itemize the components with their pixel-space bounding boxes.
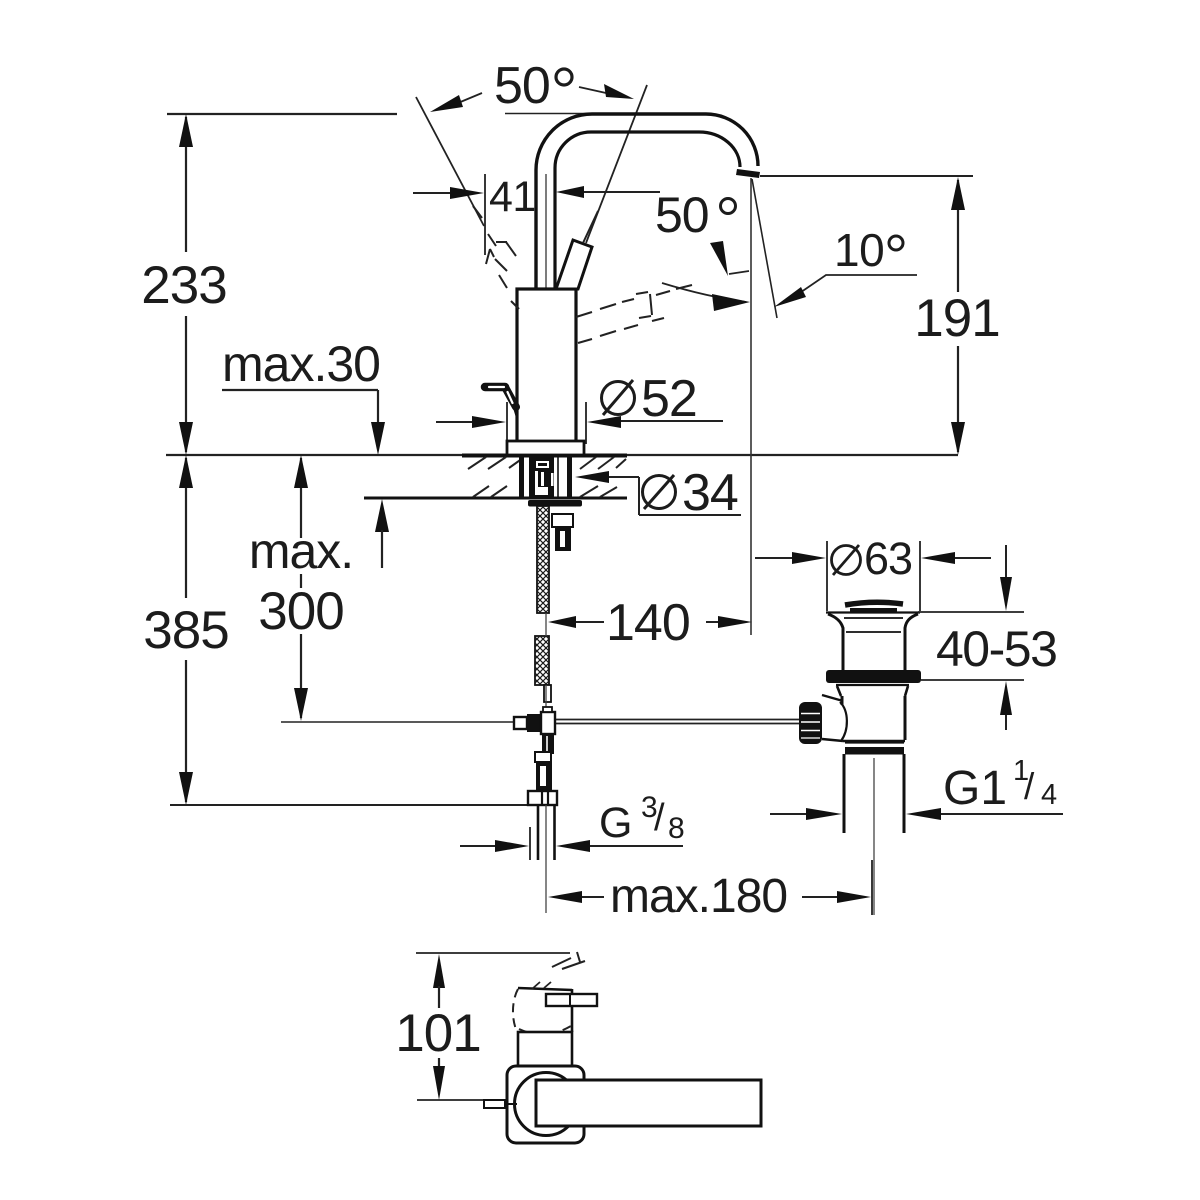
dimension 191 vertical line with arrows [951, 177, 965, 455]
svg-text:max.: max. [249, 523, 353, 579]
svg-text:G: G [599, 799, 632, 847]
side view lever bar [546, 994, 597, 1006]
pull rod knurled knob [799, 702, 822, 744]
pull rod horizontal [556, 720, 799, 724]
dimension G3/8 label [599, 791, 685, 847]
10 degree slanted line [752, 179, 777, 318]
dimension 41 label [489, 173, 536, 221]
svg-text:233: 233 [141, 256, 226, 315]
connection tail pipe [538, 805, 555, 913]
svg-text:52: 52 [641, 370, 697, 428]
mounting hole left wall [519, 456, 524, 498]
dimension diameter 63 label [832, 533, 913, 584]
threaded shank assembly [529, 456, 558, 499]
connection nut G3/8 [528, 791, 557, 805]
dimension G1 1/4 arrows [770, 808, 1063, 820]
dimension diameter 34 leader [575, 471, 741, 515]
side view top reference line [416, 952, 570, 954]
dimension 385 vertical line with arrows [179, 455, 193, 805]
shank washer under counter [528, 500, 582, 507]
dimension max.300 label [249, 523, 353, 641]
dimension 191 top reference line [760, 175, 973, 177]
faucet base plate [507, 441, 584, 455]
dimension 40-53 lower reference line [921, 679, 1024, 681]
dimension 233 top reference line [167, 113, 397, 115]
flexible hose upper braided section [537, 506, 549, 613]
dimension 233 label [141, 256, 226, 315]
dimension diameter 34 label [643, 464, 738, 522]
svg-text:max.180: max.180 [610, 870, 787, 923]
dimension diameter 63 extension lines [827, 541, 920, 611]
counter bottom surface line [364, 497, 627, 500]
dimension 41 line with arrows [413, 174, 660, 255]
dimension max.30 label and leader [222, 336, 389, 568]
svg-text:max.30: max.30 [222, 336, 380, 392]
faucet body [517, 289, 576, 443]
pop-up waste groove ring [845, 743, 904, 755]
svg-text:/: / [1024, 766, 1035, 807]
dimension 40-53 upper reference line [918, 611, 1024, 613]
svg-text:191: 191 [914, 289, 999, 348]
svg-text:101: 101 [395, 1004, 480, 1063]
flexible hose lower braided section [535, 636, 549, 685]
dimension 40-53 label [936, 621, 1056, 677]
dimension 191 label [914, 289, 999, 348]
side view handle block [513, 982, 572, 1034]
angle 50 lower arc with arrow [662, 283, 750, 311]
dimension max.300 bottom reference line [281, 721, 530, 723]
side view set screw pin [484, 1100, 517, 1108]
dimension max.180 label [610, 870, 787, 923]
dimension G3/8 arrows [460, 827, 683, 860]
supply connector stack [535, 752, 552, 791]
spout swung dashed position [576, 285, 692, 343]
hose fitting right of shank [552, 514, 573, 551]
spout mouth [736, 169, 760, 178]
dimension 233 vertical line with arrows [179, 114, 193, 455]
svg-text:10: 10 [834, 224, 884, 276]
pop-up waste flange [836, 685, 909, 696]
pop-up waste flared neck [828, 614, 918, 671]
svg-text:41: 41 [489, 173, 536, 221]
svg-text:300: 300 [258, 582, 343, 641]
svg-text:4: 4 [1041, 779, 1057, 811]
spout tube outer contour [536, 114, 758, 289]
spout tube inner contour [555, 132, 740, 289]
handle lever solid [556, 211, 598, 289]
pop-up waste body [822, 695, 905, 741]
pop-up waste push button [845, 602, 903, 610]
dimension 101 vertical line with arrows [433, 954, 445, 1100]
pop-up waste tail pipe G1 1/4 [844, 754, 904, 915]
dimension 385 bottom reference line [170, 804, 528, 806]
dimension diameter 52 label [602, 370, 697, 428]
pop-up waste rubber gasket [826, 670, 921, 683]
hatching counter cross-section [468, 457, 626, 497]
dimension 101 label [395, 1004, 480, 1063]
svg-text:/: / [654, 797, 665, 839]
angle 50 degree top label [494, 57, 572, 115]
dimension 140 label [606, 594, 690, 652]
angle 10 degree label with leader [774, 224, 917, 307]
angle 50 top right extension line [586, 85, 647, 243]
svg-text:385: 385 [143, 601, 228, 660]
side view raised lever dashes [552, 952, 585, 969]
handle lever dashed position [473, 206, 519, 309]
svg-text:G1: G1 [943, 762, 1007, 815]
spout outlet vertical reference line [750, 178, 752, 635]
angle 50 top left leader and arrow [430, 93, 482, 112]
dimension 385 label [143, 601, 228, 660]
counter top surface line [166, 454, 958, 457]
svg-text:40-53: 40-53 [936, 621, 1056, 677]
dimension max.180 line with arrows [548, 860, 872, 915]
side view bottom reference line [417, 1099, 484, 1101]
dimension 140 line with arrows [548, 616, 752, 628]
hose end fitting [544, 685, 551, 702]
svg-text:50: 50 [494, 57, 550, 115]
svg-text:50: 50 [655, 187, 709, 243]
faucet centre axis line [545, 174, 547, 443]
angle 50 degree lower label [655, 187, 736, 243]
angle 50 top right leader and arrow [579, 84, 634, 99]
side view body mid block [518, 1032, 572, 1066]
angle 50 lower leader arrow [710, 241, 749, 276]
svg-text:63: 63 [864, 533, 912, 584]
svg-text:140: 140 [606, 594, 690, 652]
dimension G1 1/4 label [943, 755, 1057, 815]
pop-up waste shoulder line [826, 611, 920, 613]
svg-text:8: 8 [668, 812, 685, 845]
under counter axis line [546, 613, 547, 805]
aerator nozzle on body [485, 387, 517, 416]
spout top tangent reference line [505, 113, 596, 115]
dimension 40-53 arrows [1000, 545, 1012, 730]
dimension max.300 vertical line with arrows [294, 455, 308, 721]
dimension diameter 52 arrows [436, 402, 723, 444]
side view spout horizontal [536, 1080, 761, 1126]
side view body circle [515, 1073, 578, 1136]
svg-text:34: 34 [682, 464, 738, 522]
side view escutcheon plate [507, 1066, 584, 1143]
pull rod tee junction [514, 707, 555, 754]
angle 50 top left extension line [416, 97, 484, 226]
mounting hole right wall [567, 456, 572, 498]
dimension diameter 63 arrows [755, 552, 991, 564]
